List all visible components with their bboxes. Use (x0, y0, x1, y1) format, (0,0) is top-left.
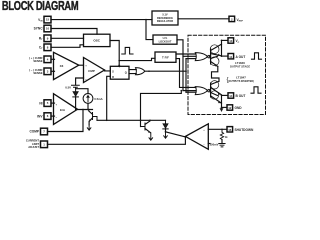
svg-text:16: 16 (228, 128, 232, 132)
pin VC 13 (228, 38, 234, 43)
pin RT 9 (44, 35, 51, 42)
transistor QB bottom circle (210, 91, 218, 99)
transistor Q1 clamp (93, 113, 98, 121)
svg-text:(OUTPUTS INVERTED): (OUTPUTS INVERTED) (228, 80, 254, 83)
wire X3 out to comparator (79, 64, 84, 66)
svg-text:B OUT: B OUT (236, 94, 246, 98)
svg-text:−: − (85, 77, 87, 81)
wire shutdown rail (97, 119, 166, 121)
node clock branch (118, 60, 120, 62)
transistor QA bottom (211, 56, 218, 58)
wire TFF Qbar to NOR B (176, 59, 196, 88)
wire to A OUT pin (222, 55, 229, 57)
svg-text:0.5V: 0.5V (65, 85, 71, 89)
node latch reset (106, 120, 108, 122)
error amplifier E/A (54, 94, 78, 125)
pin (-) current sense 3 (44, 68, 51, 75)
latch OR gate (129, 70, 136, 74)
current sense amplifier X3 (54, 52, 79, 79)
NOR gate B (195, 87, 207, 95)
NOR gate A (195, 53, 207, 61)
svg-text:LT1847: LT1847 (236, 76, 246, 80)
svg-text:R: R (112, 75, 114, 79)
node VIN branch (145, 19, 147, 21)
waveform A OUT (252, 53, 262, 59)
svg-text:ADJUST: ADJUST (28, 145, 39, 149)
ground arrow output stage (221, 95, 223, 108)
svg-text:SENSE: SENSE (33, 59, 42, 63)
pin (+) current sense 4 (44, 56, 51, 63)
wire CMP inverting input to 0.5V offset (76, 78, 84, 85)
svg-text:12: 12 (228, 106, 232, 110)
wire CS- (51, 70, 55, 72)
resistor R1 (221, 129, 223, 132)
svg-text:REFERENCE: REFERENCE (157, 16, 173, 20)
wire VIN branch down to UV lockout (146, 20, 153, 40)
pin B OUT 14 (228, 93, 234, 98)
svg-text:14: 14 (229, 94, 233, 98)
comparator CMP (84, 58, 105, 83)
wire CS+ (51, 58, 55, 60)
wire SYNC to oscillator (51, 29, 97, 35)
wire current limit adjust rail (48, 137, 186, 144)
transistor QB bottom (211, 93, 218, 96)
wire blanking vertical (185, 59, 187, 93)
svg-text:LOCKOUT: LOCKOUT (159, 39, 172, 43)
pin COMP 7 (41, 128, 48, 135)
svg-text:11: 11 (229, 55, 232, 59)
dashed output stage box (188, 35, 266, 114)
svg-text:E/A: E/A (60, 108, 66, 112)
ground arrow Q2 (149, 133, 153, 140)
PWM latch (110, 66, 129, 79)
svg-text:X3: X3 (60, 64, 64, 68)
pin CT 8 (44, 44, 51, 51)
pin NI 5 (44, 100, 51, 107)
current source 0.5mA (83, 94, 93, 104)
pin A OUT 11 (228, 54, 234, 59)
wire OSC output to PWM latch clock (110, 41, 119, 67)
wire to GND pin (222, 106, 228, 108)
svg-text:0.5mA: 0.5mA (94, 97, 102, 101)
ground arrow diode (164, 132, 168, 138)
wire EA output node (78, 109, 93, 111)
node VC (221, 40, 223, 42)
transistor QA top circle (210, 45, 219, 54)
wire branch to current source (76, 89, 88, 94)
wire clock to T flip-flop (119, 58, 155, 60)
svg-text:LT1846: LT1846 (235, 61, 245, 65)
pin INV 6 (44, 113, 51, 120)
svg-text:SENSE: SENSE (33, 71, 42, 75)
node Q2 base (140, 120, 142, 122)
node A OUT (221, 55, 223, 57)
ground arrow Q1 (87, 125, 91, 130)
wire QA emitter to QB collector (212, 66, 220, 81)
node gate output (148, 70, 150, 72)
wire VIN to reference regulator (51, 19, 152, 21)
battery 0.5V offset (72, 85, 80, 91)
pin VREF 2 (229, 16, 235, 21)
svg-text:−: − (55, 115, 57, 119)
svg-text:{: { (226, 78, 228, 84)
shutdown comparator (185, 124, 208, 150)
pin GND 12 (227, 105, 233, 110)
box UV lockout (153, 35, 177, 44)
wire Q2 base feed from NOR area (141, 91, 182, 127)
svg-text:15: 15 (46, 18, 50, 22)
svg-text:BLOCK DIAGRAM: BLOCK DIAGRAM (2, 0, 78, 14)
wire CT to oscillator (51, 45, 84, 48)
pin SYNC 10 (44, 25, 51, 32)
transistor QA top (209, 56, 210, 58)
pin SHUTDOWN 16 (227, 127, 233, 132)
svg-text:T F/F: T F/F (162, 55, 169, 59)
node resistor tap (221, 129, 223, 131)
svg-text:GND: GND (235, 106, 243, 110)
waveform B OUT (251, 87, 261, 93)
node GND (221, 107, 223, 109)
svg-text:A OUT: A OUT (236, 55, 246, 59)
svg-text:350mV: 350mV (210, 143, 219, 147)
wire shutdown input (208, 128, 227, 130)
wire blanking to NOR B (186, 91, 196, 93)
svg-text:U.V.: U.V. (163, 36, 168, 40)
wire TFF Q to NOR A (176, 53, 196, 55)
wire diode node to shutdown comparator output (166, 132, 186, 137)
diode D1 (73, 92, 79, 97)
diode D2 shutdown (165, 120, 167, 123)
wire RT to oscillator (51, 37, 84, 39)
wire UVLO to NOR A (183, 55, 196, 57)
wire blanking to NOR A (186, 58, 196, 60)
clock arrowhead into latch (118, 65, 120, 68)
waveform OSC clock pulse (122, 47, 133, 54)
svg-text:SYNC: SYNC (34, 27, 44, 31)
svg-text:5.1V: 5.1V (162, 12, 168, 16)
svg-text:INV: INV (37, 114, 43, 118)
transistor QA bottom circle (210, 57, 219, 66)
wire diode to error amp output node (75, 97, 77, 110)
ground bars shutdown resistor (219, 144, 225, 147)
svg-text:OSC: OSC (93, 39, 100, 43)
transistor Q2 (141, 123, 146, 130)
pin VIN 15 (44, 16, 51, 23)
svg-text:REGULATOR: REGULATOR (157, 19, 173, 23)
box 5.1V reference regulator (152, 11, 178, 25)
node UVLO/TFF (182, 53, 184, 55)
oscillator box OSC (84, 34, 111, 46)
svg-text:CMP: CMP (88, 69, 95, 73)
wire latch gate output (145, 70, 186, 72)
wire regulator to VREF pin (178, 18, 229, 20)
svg-text:S: S (112, 69, 114, 73)
wire UVLO to NOR B (183, 90, 196, 92)
wire COMP to EA node (48, 110, 84, 132)
wire UVLO output to NOR bus (177, 40, 183, 91)
wire to VC pin (222, 39, 229, 41)
svg-text:Q: Q (125, 70, 127, 74)
transistor QB top circle (210, 81, 218, 89)
svg-text:NI: NI (39, 101, 42, 105)
pin CURRENT LIMIT ADJUST 1 (41, 141, 48, 148)
svg-text:COMP: COMP (29, 130, 39, 134)
svg-text:SHUTDOWN: SHUTDOWN (235, 128, 254, 132)
wire latch reset vertical (107, 76, 111, 120)
svg-text:13: 13 (229, 39, 233, 43)
wire to B OUT pin (222, 94, 229, 96)
wire 350mV input stub (208, 143, 210, 145)
node B OUT (221, 95, 223, 97)
svg-text:10: 10 (46, 27, 50, 31)
wire CMP out to latch (105, 69, 111, 72)
box T flip-flop (155, 52, 176, 62)
transistor QB top (209, 90, 210, 92)
svg-text:OUTPUT STAGE: OUTPUT STAGE (230, 65, 250, 69)
tiny text labels (26, 18, 254, 149)
wire current source to EA node (87, 103, 89, 109)
